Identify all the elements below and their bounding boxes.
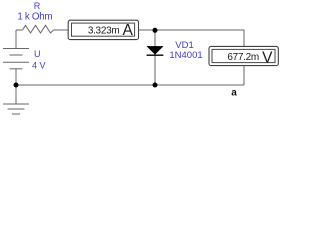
wire bottom horizontal	[16, 84, 244, 86]
wire diode branch vertical	[154, 30, 156, 85]
ammeter U1 outer box	[68, 20, 138, 39]
wire ground stub	[15, 85, 17, 104]
ground bar 1	[3, 103, 29, 105]
wire ammeter to top-right corner	[139, 30, 245, 47]
svg-text:a: a	[231, 88, 237, 99]
battery U short plate 1	[10, 54, 23, 56]
svg-text:R: R	[34, 1, 41, 11]
battery U short plate 2	[10, 68, 23, 70]
wire resistor to ammeter	[54, 29, 69, 31]
svg-text:1 k Ohm: 1 k Ohm	[17, 12, 52, 23]
battery U long plate 1	[3, 48, 29, 50]
junction dot diode top	[153, 28, 158, 33]
svg-text:U: U	[34, 49, 41, 59]
ground bar 2	[8, 108, 25, 110]
wire top-left vertical (node between R and U)	[15, 30, 17, 49]
junction dot diode bottom	[153, 83, 158, 88]
voltmeter U2 outer box	[209, 46, 278, 65]
svg-text:677.2m: 677.2m	[227, 52, 259, 63]
resistor R	[23, 25, 54, 33]
svg-text:4 V: 4 V	[32, 61, 46, 71]
ground bar 3	[12, 113, 20, 115]
diode VD1 triangle	[147, 46, 163, 54]
wire top-left horizontal lead to resistor	[16, 29, 23, 31]
ammeter U1 inner box	[72, 23, 135, 36]
junction dot bottom-left	[14, 83, 19, 88]
svg-text:3.323m: 3.323m	[88, 26, 120, 37]
wire battery bottom	[15, 69, 17, 85]
svg-text:1N4001: 1N4001	[169, 50, 202, 61]
battery U long plate 2	[3, 61, 29, 63]
wire voltmeter bottom	[243, 66, 245, 86]
svg-text:V: V	[262, 49, 273, 66]
svg-text:A: A	[123, 22, 134, 39]
diode VD1 cathode bar	[147, 54, 164, 56]
voltmeter U2 inner box	[212, 49, 275, 62]
